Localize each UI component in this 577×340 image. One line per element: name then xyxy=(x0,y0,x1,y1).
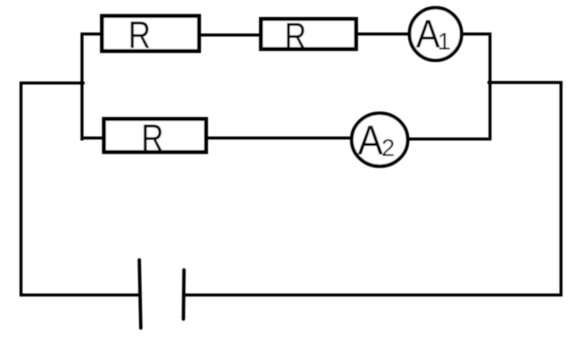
battery left plate (long) xyxy=(139,260,141,328)
svg-text:R: R xyxy=(128,15,151,57)
svg-text:R: R xyxy=(141,118,164,160)
wire bottom right xyxy=(184,294,561,297)
wire bottom left xyxy=(21,294,140,297)
wire inner right vertical xyxy=(489,34,492,139)
wire A2 to right node xyxy=(408,138,490,141)
ammeter A1 xyxy=(410,8,462,61)
svg-text:A: A xyxy=(358,118,384,164)
wire A1 to right node xyxy=(461,33,490,36)
wire inner left vertical xyxy=(81,34,84,139)
wire R2 to A1 xyxy=(357,33,410,36)
resistor R3 xyxy=(104,118,206,160)
resistor R1 xyxy=(102,15,199,57)
wire R3 to A2 xyxy=(207,137,352,140)
wire right stub xyxy=(489,81,561,84)
wire R1 to R2 xyxy=(200,34,260,37)
wire middle branch: left node to R3 xyxy=(82,137,104,140)
svg-text:1: 1 xyxy=(438,29,451,56)
wire outer left vertical xyxy=(20,83,23,295)
resistor R2 xyxy=(261,16,356,58)
battery right plate (short) xyxy=(182,270,186,319)
ammeter A2 xyxy=(352,113,408,166)
wire top branch: left node to R1 xyxy=(82,33,102,36)
svg-text:R: R xyxy=(285,16,307,58)
svg-text:2: 2 xyxy=(382,135,395,162)
wire left stub xyxy=(21,82,83,85)
wire outer right vertical xyxy=(560,83,563,296)
